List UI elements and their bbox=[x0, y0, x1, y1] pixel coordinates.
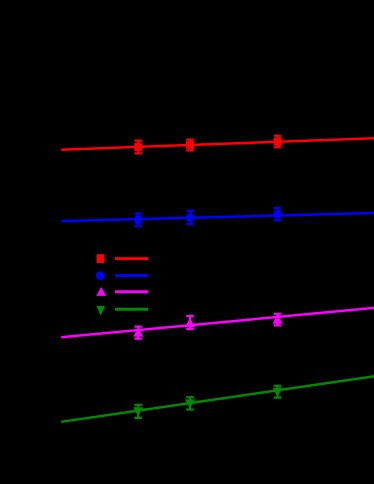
red error bar 1 bbox=[134, 141, 142, 154]
red square marker 3 bbox=[274, 138, 282, 146]
legend red line sample bbox=[115, 257, 148, 260]
magenta error bar 2 bbox=[186, 316, 194, 329]
blue error bar 1 bbox=[134, 213, 142, 226]
green triangle marker 2 bbox=[185, 399, 195, 408]
green fit line bbox=[61, 376, 374, 422]
magenta error bar 1 bbox=[134, 327, 142, 339]
red fit line bbox=[61, 138, 374, 149]
red error bar 2 bbox=[186, 140, 194, 151]
legend blue line sample bbox=[115, 274, 148, 277]
legend green line sample bbox=[115, 308, 148, 311]
green triangle marker 3 bbox=[273, 388, 283, 397]
legend blue circle bbox=[96, 271, 105, 280]
green error bar 3 bbox=[274, 386, 282, 398]
legend magenta triangle bbox=[96, 287, 106, 296]
blue fit line bbox=[61, 213, 374, 221]
red square marker 2 bbox=[186, 141, 194, 149]
green error bar 2 bbox=[186, 397, 194, 409]
magenta triangle marker 1 bbox=[133, 328, 143, 337]
red square marker 1 bbox=[134, 143, 142, 151]
legend red square bbox=[97, 254, 105, 263]
magenta triangle marker 2 bbox=[185, 318, 195, 327]
legend green triangle bbox=[96, 306, 105, 316]
blue circle marker 1 bbox=[134, 215, 143, 224]
blue circle marker 2 bbox=[186, 213, 195, 222]
green error bar 1 bbox=[134, 405, 142, 418]
blue error bar 3 bbox=[274, 208, 282, 220]
magenta triangle marker 3 bbox=[273, 315, 283, 324]
blue error bar 2 bbox=[186, 211, 194, 224]
legend magenta line sample bbox=[115, 290, 148, 293]
magenta fit line bbox=[61, 308, 374, 337]
blue circle marker 3 bbox=[273, 210, 282, 219]
green triangle marker 1 bbox=[133, 407, 143, 416]
red error bar 3 bbox=[274, 136, 282, 148]
magenta error bar 3 bbox=[274, 314, 282, 326]
